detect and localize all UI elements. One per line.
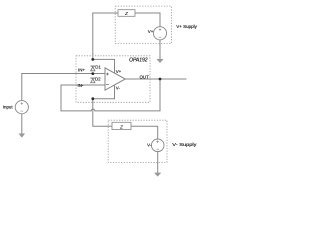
- svg-text:OUT: OUT: [140, 75, 150, 80]
- wire V- feed: [93, 99, 112, 127]
- svg-text:OPA192: OPA192: [129, 58, 148, 64]
- svg-text:V+ Supply: V+ Supply: [176, 24, 197, 29]
- svg-text:Input: Input: [3, 104, 14, 109]
- ground (V+ supply): [157, 59, 163, 63]
- node OUT junction: [159, 78, 162, 81]
- wire V- rail bottom: [93, 85, 115, 99]
- svg-text:V- Supply: V- Supply: [172, 142, 197, 147]
- node bottom rail junction: [91, 97, 94, 100]
- ground (input source): [19, 134, 25, 138]
- source V- supply circle: [151, 139, 164, 152]
- diode D2: [91, 78, 96, 83]
- wire OUT line: [125, 78, 186, 80]
- svg-text:IN+: IN+: [78, 68, 85, 73]
- svg-text:V+: V+: [148, 29, 154, 34]
- svg-text:D1: D1: [95, 65, 101, 70]
- wire Z to V+ source: [135, 13, 160, 27]
- node IN+ junction: [91, 72, 94, 75]
- svg-text:IN-: IN-: [78, 83, 84, 88]
- svg-text:Z: Z: [124, 11, 128, 16]
- wire feedback OUT to IN- with hop over V- feed: [61, 79, 160, 111]
- wire V- source to ground: [157, 152, 159, 173]
- impedance Z1 (V+ supply): [118, 10, 135, 17]
- wire IN+ from input source to op-amp: [22, 74, 105, 102]
- dashed box OPA192: [76, 56, 150, 103]
- op-amp plus input mark: [106, 73, 109, 76]
- ground (V- supply): [155, 173, 161, 177]
- dashed box V+ supply: [115, 6, 171, 43]
- wire V+ rail top: [93, 59, 115, 73]
- svg-text:Z: Z: [119, 124, 123, 129]
- svg-text:V-: V-: [147, 142, 152, 147]
- dashed box V- supply: [108, 120, 167, 162]
- svg-text:D2: D2: [95, 77, 101, 82]
- wire input source to ground: [21, 114, 23, 134]
- op-amp minus input mark: [106, 84, 109, 86]
- svg-text:V-: V-: [116, 86, 121, 91]
- impedance Z2 (V- supply): [112, 122, 131, 129]
- wire V+ feed to Z: [93, 13, 118, 59]
- wire Z to V- source: [131, 126, 158, 139]
- wire V+ source to ground: [159, 40, 161, 60]
- source Input circle: [15, 101, 28, 114]
- op-amp U1 triangle: [105, 68, 125, 90]
- diode D1: [91, 66, 96, 71]
- svg-text:V+: V+: [116, 69, 122, 74]
- source V+ supply circle: [153, 27, 166, 40]
- node top rail junction: [91, 58, 94, 61]
